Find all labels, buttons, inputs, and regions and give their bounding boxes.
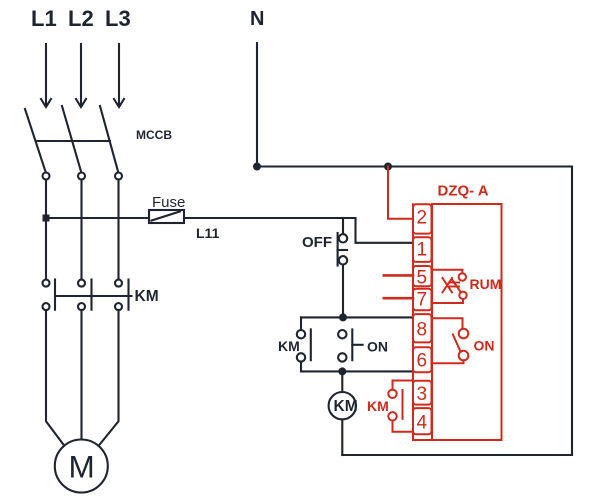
svg-text:7: 7: [417, 289, 428, 310]
junction control bottom: [338, 367, 346, 375]
terminal 7: [413, 289, 432, 311]
wire N bus horizontal: [257, 165, 572, 167]
svg-text:RUM: RUM: [470, 276, 502, 292]
wire left branch upper: [300, 317, 302, 330]
junction fuse tap: [43, 215, 50, 222]
svg-text:8: 8: [417, 319, 428, 340]
svg-text:KM: KM: [278, 338, 300, 354]
svg-text:6: 6: [417, 351, 428, 372]
svg-text:L3: L3: [105, 6, 131, 31]
breaker MCCB linkage bar: [36, 140, 110, 142]
pushbutton OFF: [338, 218, 348, 317]
contactor KM linkage bar: [55, 295, 132, 297]
terminal 2: [413, 204, 432, 233]
svg-text:Fuse: Fuse: [152, 194, 185, 211]
wire left branch lower: [300, 362, 302, 372]
svg-text:L1: L1: [31, 6, 57, 31]
wire bottom rail: [342, 454, 572, 456]
svg-text:DZQ- A: DZQ- A: [438, 183, 489, 200]
wire coil to bottom rail: [341, 419, 343, 455]
svg-text:1: 1: [417, 239, 428, 260]
svg-text:2: 2: [417, 207, 428, 228]
svg-text:ON: ON: [474, 338, 495, 354]
svg-text:4: 4: [417, 413, 428, 434]
relay box DZQ-A: [413, 204, 502, 440]
wire N vertical: [256, 43, 258, 167]
breaker terminal pole 3: [115, 173, 122, 180]
wire to coil: [341, 371, 343, 392]
svg-text:KM: KM: [334, 398, 358, 415]
wire fuse feed: [46, 217, 149, 219]
svg-text:ON: ON: [367, 339, 388, 355]
arrow L1: [41, 44, 51, 107]
wire right rail: [571, 167, 573, 456]
contact ON internal: [432, 318, 469, 363]
breaker terminal pole 2: [78, 173, 85, 180]
breaker MCCB blade pole 1: [25, 109, 46, 172]
breaker MCCB blade pole 2: [62, 106, 81, 172]
contactor KM pole 3: [115, 280, 129, 311]
svg-text:L11: L11: [196, 225, 220, 241]
svg-text:KM: KM: [367, 398, 389, 414]
junction control top: [339, 313, 347, 321]
terminal 3: [413, 381, 432, 405]
motor M1: [55, 440, 108, 493]
wire phase 1 vertical: [45, 180, 47, 280]
breaker MCCB blade pole 3: [100, 106, 118, 172]
svg-text:5: 5: [417, 268, 428, 289]
wire terminal 2 supply: [388, 167, 413, 219]
contactor KM pole 2: [78, 280, 92, 311]
wire parallel top rail: [301, 316, 413, 318]
wire motor lead 1: [46, 310, 64, 445]
terminal 4: [413, 408, 432, 434]
svg-text:OFF: OFF: [302, 234, 332, 251]
svg-text:MCCB: MCCB: [136, 128, 172, 142]
wire phase 2 vertical: [80, 180, 82, 280]
stub terminal 7: [384, 297, 413, 300]
coil KM: [329, 392, 356, 419]
arrow L2: [76, 44, 86, 107]
contact KM auxiliary: [297, 329, 311, 361]
terminal 5: [413, 266, 432, 286]
svg-text:KM: KM: [135, 288, 159, 305]
wire L11: [184, 218, 413, 243]
wire motor lead 2: [80, 310, 82, 439]
svg-text:N: N: [250, 8, 264, 30]
relay RUM: [432, 270, 467, 303]
terminal 1: [413, 237, 432, 262]
svg-text:3: 3: [417, 384, 428, 405]
wire parallel bottom rail: [301, 370, 413, 372]
contact KM internal: [388, 381, 413, 432]
wire motor lead 3: [99, 310, 119, 445]
pushbutton ON: [338, 329, 363, 361]
junction N corner: [253, 163, 261, 171]
junction DZQ supply tap: [384, 163, 392, 171]
contactor KM pole 1: [43, 280, 56, 311]
svg-text:M: M: [69, 449, 95, 485]
breaker terminal pole 1: [43, 173, 50, 180]
stub terminal 5: [384, 274, 413, 277]
fuse F1: [149, 210, 184, 223]
terminal 6: [413, 347, 432, 372]
wire phase 3 vertical: [117, 180, 119, 280]
svg-text:L2: L2: [68, 6, 94, 31]
terminal 8: [413, 314, 432, 342]
arrow L3: [114, 44, 124, 107]
